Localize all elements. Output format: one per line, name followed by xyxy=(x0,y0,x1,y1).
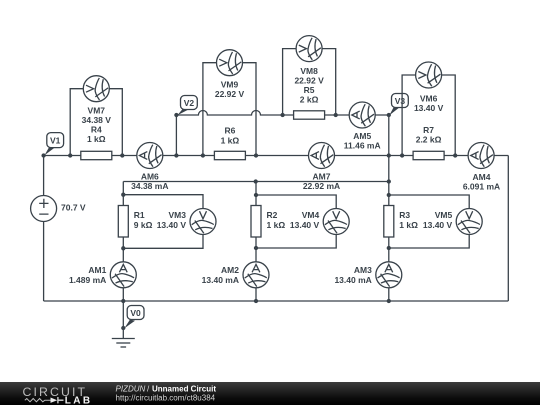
svg-text:AM7: AM7 xyxy=(313,171,331,181)
wire VM9 loop xyxy=(203,63,256,156)
junction R2 branch top xyxy=(254,179,258,183)
svg-text:V1: V1 xyxy=(50,136,61,146)
wire right edge vertical xyxy=(507,156,509,302)
svg-text:AM6: AM6 xyxy=(141,171,159,181)
junction V3 node xyxy=(387,113,391,117)
svg-text:22.92 mA: 22.92 mA xyxy=(303,181,340,191)
svg-text:VM9: VM9 xyxy=(221,80,239,90)
CircuitLab logo xyxy=(23,385,93,405)
ground xyxy=(112,339,135,348)
voltage source V=70.7 xyxy=(31,196,86,222)
junction VM7 right / R4 right xyxy=(120,153,124,157)
svg-text:1 kΩ: 1 kΩ xyxy=(87,134,106,144)
resistor R2 xyxy=(251,206,261,238)
ammeter AM7 xyxy=(309,143,335,169)
ammeter AM1 xyxy=(110,262,136,288)
resistor R3 xyxy=(384,206,394,238)
footer bar xyxy=(0,382,540,405)
svg-text:34.38 mA: 34.38 mA xyxy=(131,181,168,191)
svg-text:R7: R7 xyxy=(423,125,434,135)
wire VM6 loop xyxy=(402,75,455,156)
svg-text:1 kΩ: 1 kΩ xyxy=(221,136,240,146)
junction AM2 bottom rail xyxy=(254,299,258,303)
wire VM8 loop xyxy=(283,49,336,115)
junction AM1 bottom rail xyxy=(121,299,125,303)
svg-text:R6: R6 xyxy=(224,126,235,136)
svg-text:VM7: VM7 xyxy=(88,106,106,116)
junction R3 branch top xyxy=(387,179,391,183)
junction VM7 left / R4 left xyxy=(68,153,72,157)
junction R2 top / VM4 top xyxy=(254,193,258,197)
junction main rail / R3 trunk xyxy=(387,153,391,157)
ammeter AM4 xyxy=(468,143,494,169)
svg-text:R3: R3 xyxy=(399,210,410,220)
junction VM9 left / R6 left xyxy=(201,153,205,157)
wire source branch vertical xyxy=(43,156,45,302)
resistor R1 xyxy=(118,206,128,238)
junction R2 bottom / VM4 bottom xyxy=(254,246,258,250)
wire bottom rail xyxy=(44,300,509,302)
svg-text:VM8: VM8 xyxy=(300,66,318,76)
junction V0 node / ground xyxy=(121,326,125,330)
svg-text:R4: R4 xyxy=(91,125,102,135)
junction R1 bottom / VM3 bottom xyxy=(121,246,125,250)
wire R2 branch vertical xyxy=(255,182,257,302)
svg-text:R5: R5 xyxy=(304,85,315,95)
junction R1 top / VM3 top xyxy=(121,193,125,197)
junction AM3 bottom rail xyxy=(387,299,391,303)
junction VM6 left / R7 left xyxy=(400,153,404,157)
wire VM5 loop xyxy=(389,195,469,248)
junction V1 node xyxy=(41,153,45,157)
voltmeter VM6 xyxy=(416,62,442,88)
svg-text:1 kΩ: 1 kΩ xyxy=(399,220,418,230)
svg-text:13.40 V: 13.40 V xyxy=(290,220,320,230)
svg-text:70.7 V: 70.7 V xyxy=(61,202,86,212)
voltmeter VM3 xyxy=(190,209,216,235)
node V1 xyxy=(45,133,64,156)
voltmeter VM7 xyxy=(83,76,109,102)
svg-text:11.46 mA: 11.46 mA xyxy=(344,141,381,151)
ammeter AM6 xyxy=(137,143,163,169)
svg-text:AM5: AM5 xyxy=(353,131,371,141)
ammeter AM2 xyxy=(243,262,269,288)
svg-text:22.92 V: 22.92 V xyxy=(215,89,245,99)
resistor R4 xyxy=(81,151,112,159)
svg-text:VM4: VM4 xyxy=(302,210,320,220)
wire R1 branch vertical xyxy=(122,182,124,302)
ammeter AM3 xyxy=(376,262,402,288)
svg-text:2 kΩ: 2 kΩ xyxy=(300,95,319,105)
wire R3 branch vertical lower xyxy=(388,237,390,301)
node V0 xyxy=(124,306,144,329)
voltmeter VM8 xyxy=(296,36,322,62)
junction VM6 right / R7 right xyxy=(453,153,457,157)
junction V2 drop on main rail xyxy=(174,153,178,157)
node V2 xyxy=(177,96,197,116)
wire VM3 loop xyxy=(123,195,203,249)
svg-text:1.489 mA: 1.489 mA xyxy=(69,275,106,285)
svg-text:2.2 kΩ: 2.2 kΩ xyxy=(416,135,442,145)
resistor R6 xyxy=(214,151,245,159)
svg-text:AM1: AM1 xyxy=(88,265,106,275)
voltmeter VM4 xyxy=(323,209,349,235)
wire rail R-tops row xyxy=(123,181,389,183)
svg-text:13.40 mA: 13.40 mA xyxy=(202,275,239,285)
svg-text:34.38 V: 34.38 V xyxy=(82,115,112,125)
svg-text:VM5: VM5 xyxy=(435,210,453,220)
wire V3 vertical trunk xyxy=(388,115,390,206)
svg-text:R2: R2 xyxy=(267,210,278,220)
svg-text:13.40 mA: 13.40 mA xyxy=(334,275,371,285)
wire upper rail V2-V3 row with hops xyxy=(176,111,388,116)
resistor R5 xyxy=(294,111,325,119)
junction V2 node xyxy=(174,113,178,117)
wire main rail V1 row xyxy=(44,155,509,157)
wire VM7 loop xyxy=(70,89,122,156)
svg-text:13.40 V: 13.40 V xyxy=(423,220,453,230)
node V3 xyxy=(389,94,408,116)
junction VM8 left / R5 left xyxy=(280,113,284,117)
voltmeter VM5 xyxy=(456,209,482,235)
svg-text:AM3: AM3 xyxy=(354,265,372,275)
voltmeter VM9 xyxy=(217,50,243,76)
svg-text:22.92 V: 22.92 V xyxy=(294,76,324,86)
svg-text:VM6: VM6 xyxy=(420,94,438,104)
junction VM8 right / R5 right xyxy=(334,113,338,117)
svg-text:V2: V2 xyxy=(184,98,195,108)
svg-text:AM2: AM2 xyxy=(221,265,239,275)
svg-text:V3: V3 xyxy=(395,96,406,106)
resistor R7 xyxy=(413,151,444,159)
wire V2 drop xyxy=(175,115,177,156)
ammeter AM5 xyxy=(349,102,375,128)
junction R3 bottom / VM5 bottom xyxy=(387,246,391,250)
svg-text:V0: V0 xyxy=(130,308,141,318)
svg-text:VM3: VM3 xyxy=(169,210,187,220)
svg-text:6.091 mA: 6.091 mA xyxy=(463,181,500,191)
svg-text:13.40 V: 13.40 V xyxy=(157,220,187,230)
junction R3 top / VM5 top xyxy=(387,193,391,197)
svg-text:9 kΩ: 9 kΩ xyxy=(134,220,153,230)
wire ground lead xyxy=(122,301,124,339)
wire VM4 loop xyxy=(256,195,336,248)
svg-text:1 kΩ: 1 kΩ xyxy=(267,220,286,230)
svg-text:13.40 V: 13.40 V xyxy=(414,103,444,113)
svg-text:R1: R1 xyxy=(134,210,145,220)
junction VM9 right / R6 right xyxy=(254,153,258,157)
